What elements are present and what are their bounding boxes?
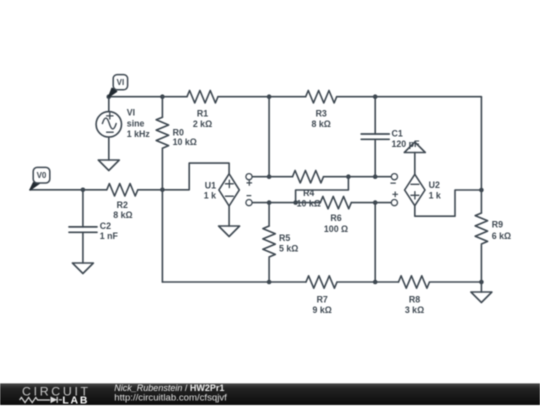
svg-text:V0: V0 xyxy=(37,171,47,180)
footer bar xyxy=(0,383,540,405)
svg-text:R6: R6 xyxy=(330,213,341,223)
svg-text:1 kHz: 1 kHz xyxy=(127,129,151,139)
resistor R6 xyxy=(320,196,351,208)
U2 control polarity marks xyxy=(390,183,398,197)
junction top row / R0 xyxy=(160,94,165,99)
svg-text:8 kΩ: 8 kΩ xyxy=(312,119,331,129)
svg-text:3 kΩ: 3 kΩ xyxy=(405,305,424,315)
svg-text:U1: U1 xyxy=(205,180,216,190)
terminal U1 control - (pin) xyxy=(246,200,252,206)
wire U2 output xyxy=(415,190,482,216)
wire R5 branch xyxy=(268,203,270,282)
voltage source VI xyxy=(96,112,121,137)
svg-text:R7: R7 xyxy=(317,295,328,305)
terminal U2 control + (pin) xyxy=(391,200,397,206)
svg-text:R9: R9 xyxy=(492,219,503,229)
wire step R4 to row B xyxy=(296,177,349,203)
resistor R5 xyxy=(263,226,275,257)
junction node VI at top row xyxy=(107,94,112,99)
wire vertical x375 lower xyxy=(374,203,376,282)
dependent source U1 xyxy=(219,174,239,206)
svg-text:1 k: 1 k xyxy=(204,191,216,201)
capacitor C2 xyxy=(69,227,97,232)
svg-text:R8: R8 xyxy=(409,295,420,305)
terminal U2 control - (pin) xyxy=(391,174,397,180)
junction bottom row / ground xyxy=(479,280,484,285)
svg-text:5 kΩ: 5 kΩ xyxy=(279,244,298,254)
wire left vertical with R0 xyxy=(161,97,163,282)
wire row B (lower control row) xyxy=(249,202,394,204)
node flag VI xyxy=(109,75,128,97)
resistor R3 xyxy=(306,91,337,103)
junction top row / mid vertical xyxy=(267,94,272,99)
resistor R2 xyxy=(107,184,138,196)
wire bottom-right ground stem xyxy=(480,282,482,292)
ground below VI xyxy=(98,160,119,171)
svg-text:C2: C2 xyxy=(100,221,111,231)
svg-text:http://circuitlab.com/cfsqjvf: http://circuitlab.com/cfsqjvf xyxy=(114,393,227,404)
svg-text:8 kΩ: 8 kΩ xyxy=(113,210,132,220)
svg-text:U2: U2 xyxy=(429,180,440,190)
wire U2 top stem xyxy=(414,153,416,175)
junction row A / C1 branch xyxy=(373,174,378,179)
svg-text:2 kΩ: 2 kΩ xyxy=(193,119,212,129)
junction row B / lower vertical xyxy=(373,200,378,205)
svg-text:C1: C1 xyxy=(392,128,403,138)
svg-text:1 nF: 1 nF xyxy=(100,231,119,241)
svg-text:6 kΩ: 6 kΩ xyxy=(492,231,511,241)
wire U1 ground stem xyxy=(228,206,230,226)
wire V0 row xyxy=(30,189,162,191)
svg-text:Nick_Rubenstein / HW2Pr1: Nick_Rubenstein / HW2Pr1 xyxy=(114,383,224,393)
wire C2 branch xyxy=(82,190,84,263)
svg-text:LAB: LAB xyxy=(62,395,89,405)
resistor R9 xyxy=(475,213,487,244)
junction row B / R5 xyxy=(267,200,272,205)
wire C1 branch xyxy=(374,97,376,177)
ground above U2 (flipped) xyxy=(404,142,425,153)
resistor R7 xyxy=(306,276,337,288)
svg-text:100 Ω: 100 Ω xyxy=(324,224,348,234)
junction U2 output / right vertical xyxy=(479,188,484,193)
junction V0 row / C2 xyxy=(81,188,86,193)
resistor R1 xyxy=(187,91,218,103)
svg-text:R5: R5 xyxy=(279,233,290,243)
svg-text:R1: R1 xyxy=(197,109,208,119)
svg-text:R2: R2 xyxy=(117,200,128,210)
wire VI stem bottom xyxy=(108,137,110,160)
resistor R8 xyxy=(399,276,430,288)
svg-text:R4: R4 xyxy=(303,188,314,198)
wire vertical x269 top xyxy=(268,97,270,177)
resistor R4 xyxy=(293,171,324,183)
junction bottom row / R5 xyxy=(267,280,272,285)
wire right vertical xyxy=(480,97,482,282)
junction row A / mid vertical xyxy=(267,174,272,179)
U1 control polarity marks xyxy=(247,180,253,196)
svg-text:120 pF: 120 pF xyxy=(392,139,420,149)
ground bottom right xyxy=(471,292,492,303)
svg-text:10 kΩ: 10 kΩ xyxy=(297,199,321,209)
wire top row xyxy=(109,96,482,98)
capacitor C1 xyxy=(361,134,389,139)
junction top row / C1 branch xyxy=(373,94,378,99)
terminal U1 control + (pin) xyxy=(246,174,252,180)
svg-text:R3: R3 xyxy=(316,109,327,119)
svg-text:1 k: 1 k xyxy=(429,190,441,200)
wire U1 input xyxy=(162,163,229,190)
svg-text:VI: VI xyxy=(117,78,125,87)
footer logo squiggle xyxy=(20,397,62,403)
svg-text:sine: sine xyxy=(127,119,145,129)
junction row A / step wire xyxy=(346,174,351,179)
junction V0 row / R0 / U1 input xyxy=(160,188,165,193)
ground below U1 xyxy=(219,226,240,237)
wire row A (upper control row) xyxy=(249,176,394,178)
dependent source U2 xyxy=(405,174,425,205)
junction bottom row / lower vertical xyxy=(373,280,378,285)
node flag V0 xyxy=(30,167,50,190)
svg-text:9 kΩ: 9 kΩ xyxy=(313,305,332,315)
svg-text:10 kΩ: 10 kΩ xyxy=(173,137,197,147)
resistor R0 xyxy=(156,117,168,148)
junction row B / step wire xyxy=(293,200,298,205)
wire bottom row xyxy=(162,281,481,283)
svg-text:VI: VI xyxy=(127,108,135,118)
ground below C2 xyxy=(72,263,93,274)
wire VI stem top xyxy=(108,97,110,112)
